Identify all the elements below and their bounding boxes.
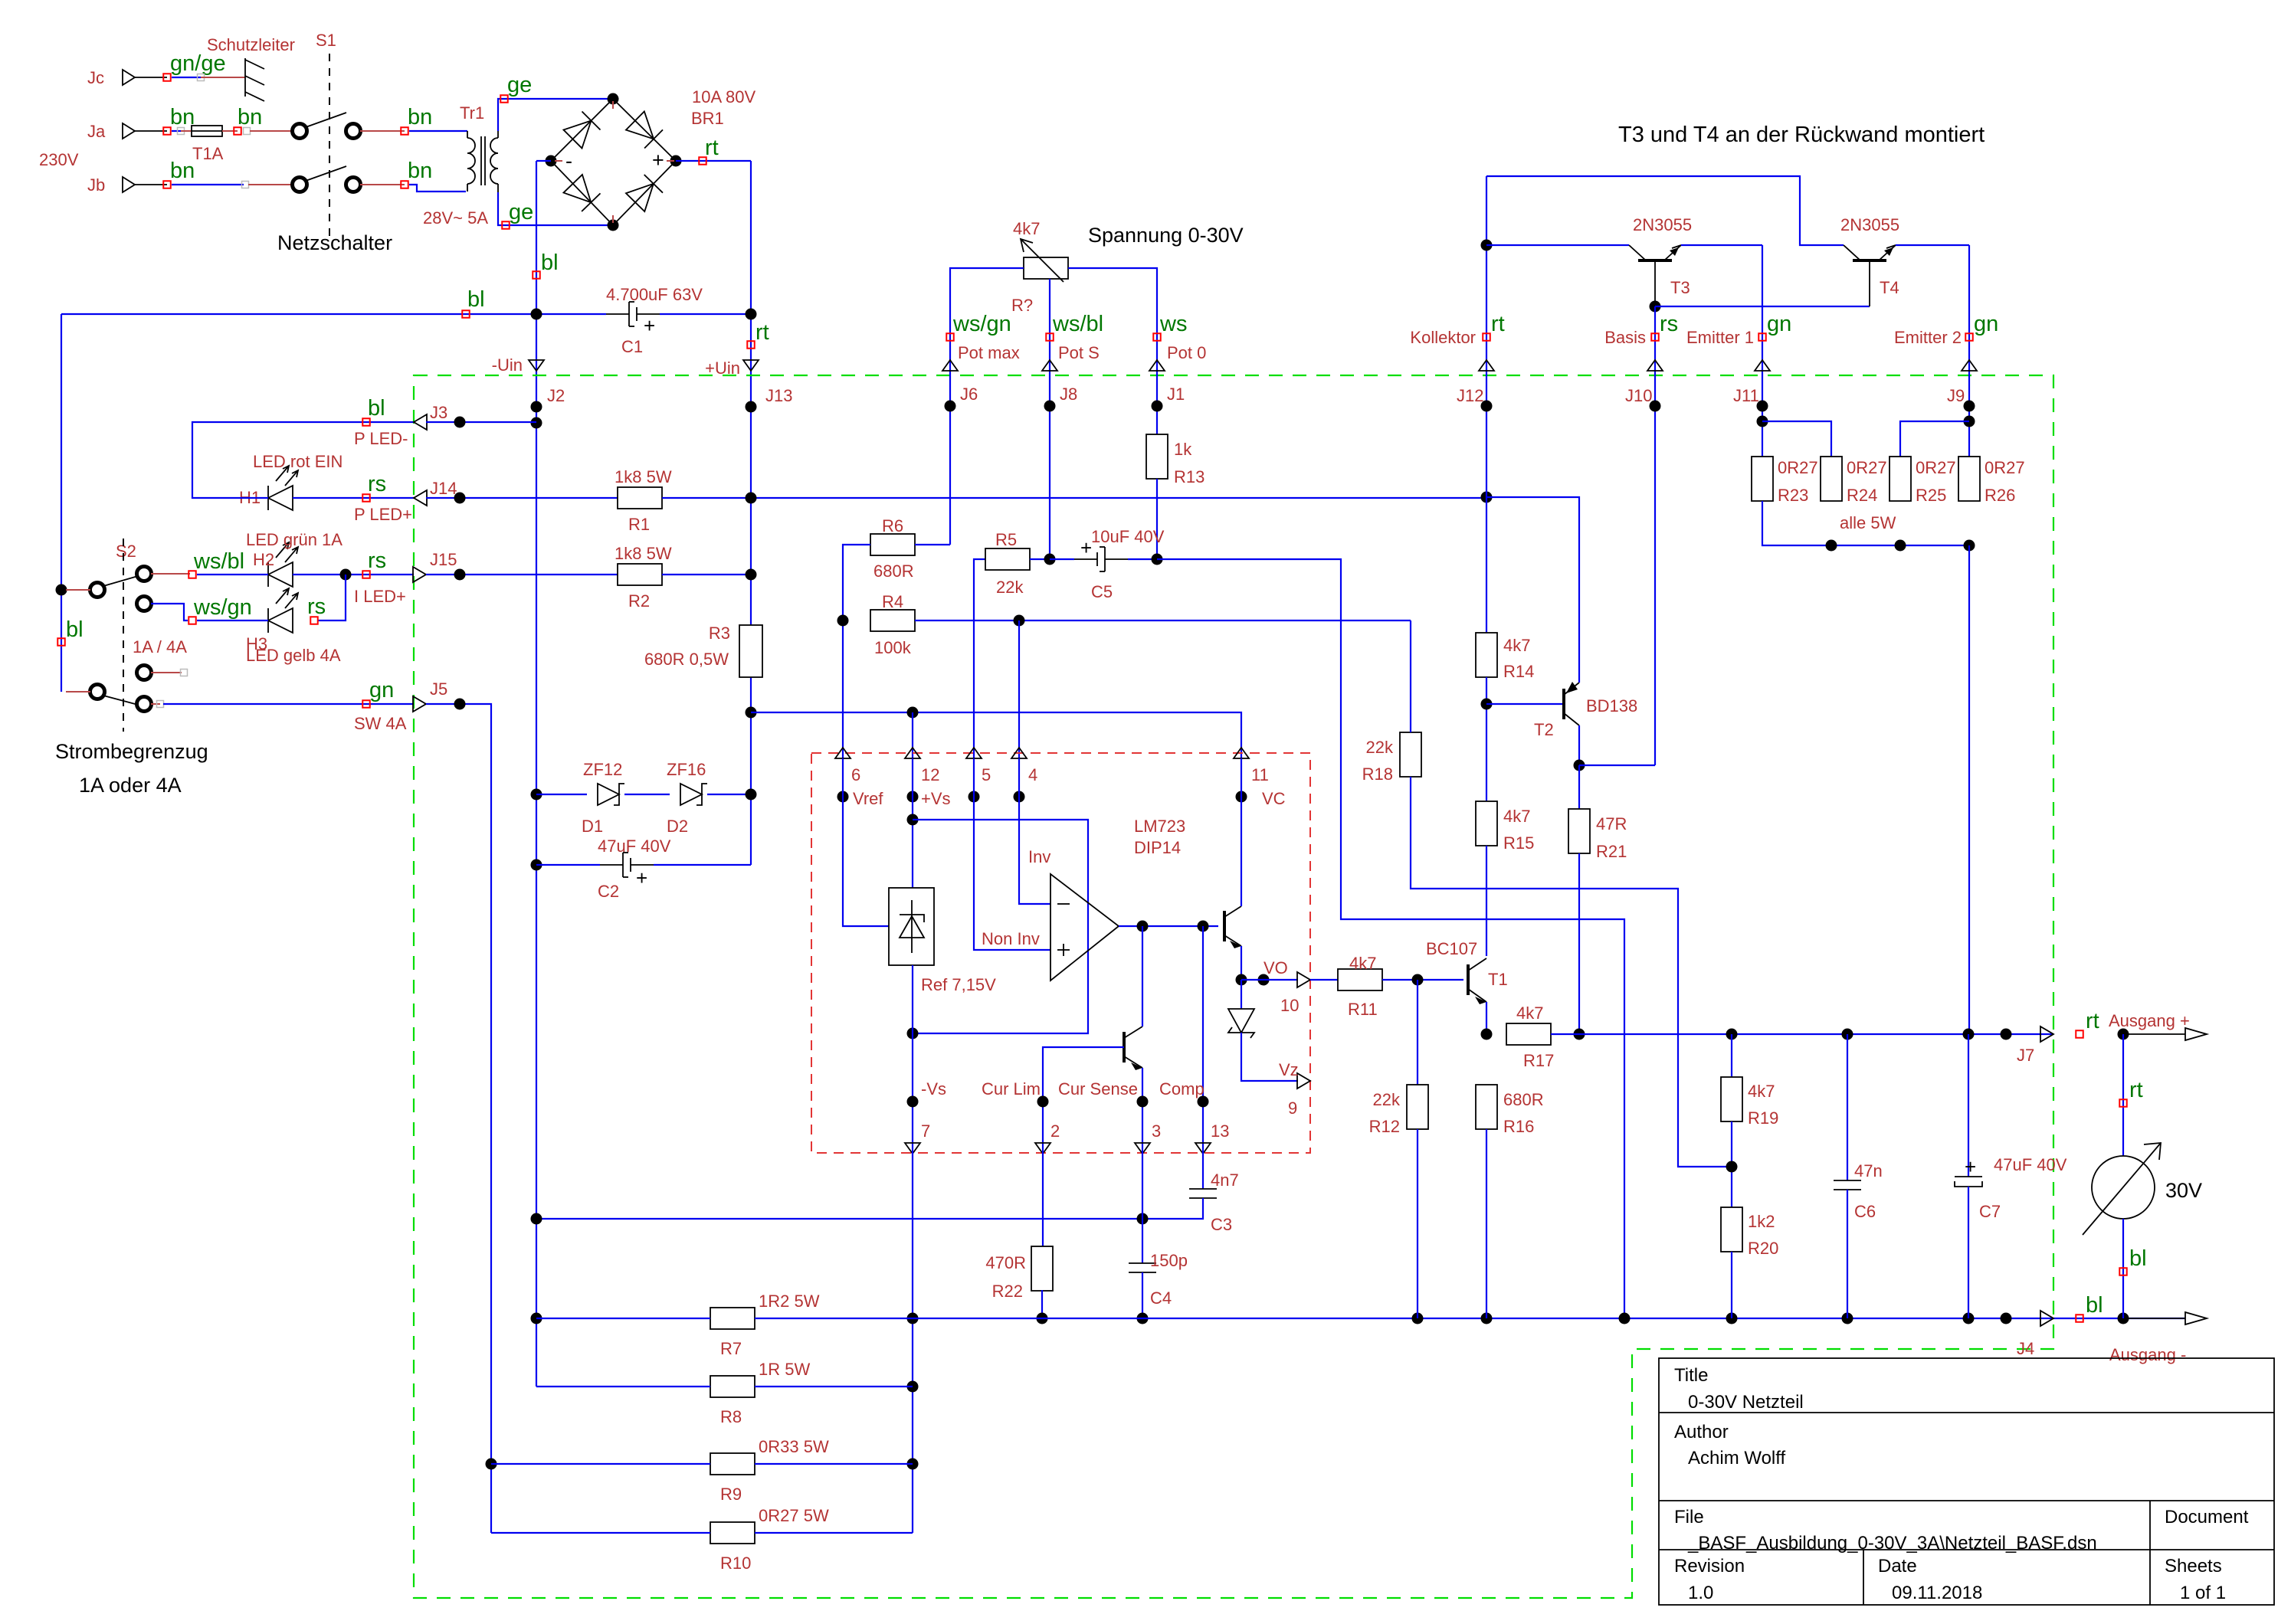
svg-text:4k7: 4k7 [1516,1004,1543,1023]
svg-text:R22: R22 [992,1282,1023,1301]
wire J5 to R9 column [426,704,491,1533]
svg-text:bn: bn [408,105,432,129]
pin dot J5 [454,699,466,710]
svg-text:R8: R8 [720,1407,742,1426]
svg-text:47R: 47R [1596,814,1627,833]
svg-text:alle 5W: alle 5W [1840,513,1896,532]
svg-text:C5: C5 [1091,582,1113,601]
tap square J5 [157,701,164,708]
portal VO 10 [1297,972,1310,987]
svg-text:R24: R24 [1847,486,1877,505]
svg-text:0R27: 0R27 [1916,458,1956,477]
wire +Vs loop [913,820,1088,1033]
svg-text:gn/ge: gn/ge [170,51,226,76]
junction C5 at J1 [1152,554,1163,565]
wire C2 left [536,864,600,866]
svg-text:Non Inv: Non Inv [982,929,1040,948]
wire R10 left [491,1532,710,1534]
svg-text:P LED+: P LED+ [354,505,412,524]
wire C5 right [1128,558,1157,560]
zener D1 ZF12 [598,784,619,805]
resistor R2 [618,564,662,585]
junction pin4 node [1014,615,1025,627]
svg-text:2: 2 [1050,1121,1060,1141]
resistor R23 [1752,457,1773,501]
svg-text:10: 10 [1280,996,1299,1015]
svg-text:T4: T4 [1880,278,1899,297]
switch S1 dashed link [329,54,330,239]
connector Jb [123,177,135,192]
wire pin5 noninv internal [974,758,1050,950]
wire T4 emitter to J9 [1896,244,1969,246]
pin square bl on -Uin [533,271,540,279]
pin dot 7 -Vs [907,1096,919,1108]
junction VO rail C6 [1842,1029,1853,1040]
svg-text:J7: J7 [2017,1046,2034,1065]
svg-text:0R27 5W: 0R27 5W [759,1506,829,1525]
svg-text:LED rot EIN: LED rot EIN [253,452,343,471]
svg-text:T3 und T4 an der Rückwand mont: T3 und T4 an der Rückwand montiert [1618,123,1985,147]
junction I LED+ [340,569,352,581]
potentiometer R? 4k7 [1024,257,1068,279]
wire pin3 to C4 [1142,1148,1143,1263]
resistor R8 [710,1376,755,1397]
portal -Uin [529,360,544,371]
bridge diode bottom-right [626,184,654,211]
wire J11 to R24 [1762,421,1831,457]
portal J4 [2040,1311,2053,1326]
wire Vref column [843,545,870,758]
svg-text:R5: R5 [995,530,1017,549]
svg-text:J3: J3 [430,403,447,422]
wire bl to S2 upper [66,589,90,591]
svg-text:J9: J9 [1947,386,1965,405]
junction C2 left [531,859,542,871]
svg-text:ge: ge [509,200,533,224]
resistor R5 [985,548,1030,570]
svg-text:230V: 230V [39,150,79,169]
switch S1 pole A right contact [346,124,361,139]
wire Jb black [135,184,167,185]
pin square ws/bl J8 [1046,333,1054,341]
switch S2 lower throw 1 [137,666,152,680]
wire R20 to minus rail [1731,1252,1732,1318]
wire collector to T3 [1486,244,1629,246]
svg-text:H2: H2 [253,550,274,569]
wire R18 top to R4 net [1410,620,1411,732]
wire C3 to sense rail [536,1198,1203,1219]
junction C1 left on J2 [531,309,542,320]
junction VO rail C7 [1963,1029,1975,1040]
svg-text:DIP14: DIP14 [1134,838,1181,857]
pin square bl at S2 [57,638,65,646]
junction +Uin at Kollektor [1481,492,1493,503]
svg-text:ws/bl: ws/bl [1052,312,1103,336]
svg-text:+: + [1080,536,1092,559]
svg-text:J12: J12 [1457,386,1483,405]
wire R6 right to J6 [915,544,950,545]
wire pin4 inv internal [1019,758,1050,904]
junction VO rail R19 [1726,1029,1738,1040]
wire R8 right [755,1386,913,1387]
pin square Emitter 1 [1758,333,1766,341]
junction +Vs loop bottom [907,1028,919,1040]
svg-text:J4: J4 [2017,1339,2034,1358]
svg-text:3: 3 [1152,1121,1161,1141]
svg-text:4n7: 4n7 [1211,1171,1239,1190]
junction VO right [1258,974,1270,986]
wire Basis vertical [1654,306,1656,765]
junction Pot S node [1044,554,1056,565]
junction -Vs at R9 [907,1459,919,1470]
svg-text:4k7: 4k7 [1748,1082,1775,1101]
junction C1 right on J13 [746,309,757,320]
junction R11 R12 [1412,974,1424,986]
resistor R25 [1890,457,1911,501]
svg-text:J11: J11 [1733,386,1759,405]
svg-text:9: 9 [1288,1098,1297,1118]
pin square Basis [1651,333,1659,341]
wire Q emitter to VO [1241,946,1242,980]
junction D row at J2 [531,789,542,801]
wire +Uin rail J13 vertical lower [750,677,752,865]
svg-text:Schutzleiter: Schutzleiter [207,35,295,54]
reference diode Ref 7,15V [889,888,934,965]
junction C4 at minus rail [1137,1313,1149,1324]
wire C2 right [654,864,751,866]
svg-text:R2: R2 [628,591,650,611]
svg-text:4.700uF 63V: 4.700uF 63V [606,285,703,304]
switch S1 pole B left contact [293,178,307,192]
svg-text:bl: bl [541,250,559,275]
svg-text:R7: R7 [720,1339,742,1358]
junction minus rail R16 [1481,1313,1493,1324]
wire meter top [2122,1034,2124,1156]
wire C6 top [1847,1034,1848,1180]
bridge pin tick left [555,160,562,162]
pin square bl left [462,310,470,318]
pin dot J13 [746,401,757,413]
resistor R12 [1407,1085,1428,1129]
pin dot J15 [454,569,466,581]
svg-text:Inv: Inv [1028,847,1050,866]
svg-text:R?: R? [1011,296,1033,315]
wire R8 left [536,1386,710,1387]
svg-text:C6: C6 [1854,1202,1876,1221]
junction minus rail R20 [1726,1313,1738,1324]
portal pin 3 [1135,1143,1150,1154]
wire R15 to T1 collector [1486,846,1487,956]
pin dot J8 [1044,401,1056,412]
svg-text:rt: rt [1491,312,1505,336]
svg-text:bl: bl [368,396,385,421]
wire Jc blue [172,77,201,78]
wire R7 left [536,1318,710,1319]
wire to C5 [1050,558,1074,560]
svg-text:R3: R3 [709,624,730,643]
resistor R9 [710,1453,755,1475]
svg-text:1k8 5W: 1k8 5W [615,544,672,563]
zener D2 ZF16 [680,784,702,805]
portal pin 5 [966,748,982,758]
svg-text:Pot S: Pot S [1058,343,1100,362]
svg-text:VO: VO [1263,958,1288,977]
wire CL collector [1142,926,1143,1026]
wire pot wiper to J8 [1049,279,1050,559]
svg-text:22k: 22k [996,578,1024,597]
junction R19 R20 [1726,1161,1738,1173]
junction R14 T2 base [1481,699,1493,710]
svg-text:R10: R10 [720,1554,751,1573]
svg-text:gn: gn [369,678,394,702]
svg-text:Pot max: Pot max [958,343,1020,362]
pin dot J9 [1964,401,1975,412]
wire base bus [1655,306,1870,307]
junction R7 left [531,1313,542,1324]
svg-text:470R: 470R [985,1253,1026,1272]
portal J5 [413,696,426,712]
wire ge top [498,99,611,131]
junction collector T3 [1481,240,1493,251]
svg-text:09.11.2018: 09.11.2018 [1892,1583,1982,1603]
wire VO to zener [1241,980,1242,1009]
transformer Tr1 [467,138,475,184]
svg-text:+: + [636,866,647,889]
svg-text:R23: R23 [1778,486,1808,505]
pin dot J3 [454,417,466,428]
wire bridge minus to -Uin line [536,160,551,162]
resistor R10 [710,1522,755,1544]
wire T2 base [1486,703,1564,705]
wire pin4 drop [1018,620,1020,758]
svg-text:D1: D1 [582,817,603,836]
wire Ja to Tr1 [409,130,467,132]
wire H2 anode right [293,574,414,575]
junction meter plus [2118,1029,2129,1040]
wire D2 to J13 [707,794,751,795]
svg-text:Revision: Revision [1674,1556,1745,1577]
wire R12 to minus rail [1417,1129,1418,1318]
svg-text:ws/gn: ws/gn [193,595,252,620]
wire T2 collector to rs line [1579,765,1655,766]
pin square Kollektor [1483,333,1490,341]
junction J3 at J2 [531,417,542,429]
junction +Vs drop [907,707,919,719]
wire to output plus arrow [2123,1033,2185,1035]
portal pin 4 [1011,748,1027,758]
wire R9 right [755,1463,913,1465]
svg-text:150p: 150p [1150,1251,1188,1270]
svg-text:T2: T2 [1534,720,1554,739]
svg-text:VC: VC [1262,789,1286,808]
svg-text:bn: bn [238,105,262,129]
junction R25 bottom [1895,540,1906,552]
svg-text:0R27: 0R27 [1847,458,1887,477]
wire to output minus arrow [2123,1318,2185,1319]
pin square bl PLED- [362,418,370,426]
svg-text:J6: J6 [960,385,978,404]
wire H1 anode to J14 [293,497,414,499]
svg-text:C4: C4 [1150,1288,1172,1308]
junction -Vs at minus rail [907,1313,919,1324]
resistor R16 [1476,1085,1497,1129]
transistor Q current-limit internal [1123,1032,1126,1062]
wire emitter resistor bottom bus [1762,501,1969,545]
svg-text:Date: Date [1878,1556,1917,1577]
pin dot 4 [1014,791,1025,803]
resistor R7 [710,1308,755,1329]
svg-text:Spannung 0-30V: Spannung 0-30V [1088,224,1244,247]
svg-text:J1: J1 [1167,385,1185,404]
svg-text:Sheets: Sheets [2165,1556,2222,1577]
tap square Jc [198,74,205,81]
svg-text:I LED+: I LED+ [354,587,406,606]
junction meter minus [2118,1313,2129,1324]
pin dot 13 [1198,1096,1209,1108]
svg-text:R9: R9 [720,1485,742,1504]
svg-text:J13: J13 [765,386,792,405]
svg-text:rs: rs [368,548,386,573]
pin dot J14 [454,493,466,504]
wire pot right to J1 [1068,268,1157,434]
wire Jb to switch [248,184,293,185]
svg-text:13: 13 [1211,1121,1229,1141]
connector Jc [123,70,135,85]
svg-text:Emitter 2: Emitter 2 [1894,328,1962,347]
svg-text:1R 5W: 1R 5W [759,1360,810,1379]
wire switch B to bn [360,184,405,185]
wire J14 to R1 [426,497,618,499]
junction base T3 T4 [1650,301,1661,313]
junction R21 at VO rail [1574,1029,1585,1040]
wire Emitter1 vertical [1762,245,1763,457]
svg-text:J2: J2 [547,386,565,405]
svg-text:Cur Lim: Cur Lim [982,1079,1041,1098]
resistor R13 [1146,434,1168,479]
capacitor C7 47uF [1955,1176,1982,1177]
resistor R1 [618,487,662,509]
resistor R18 [1400,732,1421,777]
portal pin 13 [1195,1143,1211,1154]
svg-text:bl: bl [467,287,485,312]
wire H1 cathode to J3 [192,422,414,498]
resistor R11 [1338,969,1382,990]
wire R13 to C5 row [1156,479,1158,559]
junction J9 branch [1964,416,1975,427]
capacitor C5 [1104,547,1106,571]
connector Ausgang minus arrow [2185,1312,2207,1324]
svg-text:R11: R11 [1348,1000,1378,1019]
svg-text:BR1: BR1 [691,109,724,128]
portal J8 [1042,360,1057,371]
pin square ws/bl [188,571,196,578]
wire C7 bottom [1968,1187,1969,1318]
pin square bl meter [2119,1268,2127,1275]
svg-text:4k7: 4k7 [1503,636,1530,655]
svg-text:bl: bl [2129,1246,2147,1271]
resistor R24 [1821,457,1842,501]
fuse T1A [192,126,222,136]
svg-text:rt: rt [2086,1009,2099,1033]
resistor R26 [1958,457,1980,501]
capacitor C1 [628,302,630,326]
pin square rt J7 [2076,1030,2083,1038]
capacitor C6 47n [1834,1180,1861,1181]
svg-text:gn: gn [1767,312,1791,336]
wire S2 upper throw1 to ws/bl [151,573,190,575]
junction J11 branch [1757,416,1768,427]
svg-text:Achim Wolff: Achim Wolff [1688,1448,1785,1468]
svg-text:T1: T1 [1488,970,1508,989]
wire J5 blue [163,703,414,705]
svg-text:Title: Title [1674,1365,1708,1386]
wire C1 right [660,313,751,315]
wire R9 left [491,1463,710,1465]
pin square Ja bn 3 [401,127,408,135]
wire J9 to R25 [1900,421,1969,457]
svg-text:LED gelb 4A: LED gelb 4A [246,646,341,665]
wire J1 net to comp drop [1157,559,1624,1318]
earth Schutzleiter symbol [244,58,246,97]
bridge pin tick right [667,160,674,162]
junction Vref R4 [837,615,849,627]
connector Ausgang plus arrow [2185,1028,2207,1040]
pin dot J1 [1152,401,1163,412]
wire T1 emitter [1486,1002,1487,1034]
pin square ws/gn J6 [946,333,954,341]
pin square Emitter 2 [1965,333,1973,341]
wire CL base pin2 [1043,1047,1124,1148]
svg-text:rs: rs [368,472,386,496]
capacitor C2 [622,853,624,877]
svg-text:+Vs: +Vs [921,789,951,808]
wire pin13 to C3 [1202,1148,1204,1189]
wire bl horizontal C1 row [61,313,606,315]
wire R2 to J13 [662,574,751,575]
resistor R6 [870,534,915,555]
pin dot J6 [945,401,956,412]
wire I LED+ riser [317,575,346,620]
svg-text:47n: 47n [1854,1161,1883,1180]
svg-text:J15: J15 [430,550,457,569]
svg-text:Author: Author [1674,1422,1729,1442]
svg-text:J14: J14 [430,479,457,498]
wire Kollektor vertical [1486,176,1487,634]
svg-text:R1: R1 [628,515,650,534]
svg-text:bl: bl [66,617,84,642]
wire pin7 below box [912,1148,913,1533]
pin dot J11 [1757,401,1768,412]
svg-text:J8: J8 [1060,385,1077,404]
pin square Jb bn 2 [401,181,408,188]
svg-text:10A 80V: 10A 80V [692,87,756,106]
svg-text:4: 4 [1028,765,1037,784]
svg-text:rt: rt [755,320,769,345]
junction bridge top [608,93,619,105]
wire Emitter2 vertical [1968,245,1970,457]
svg-text:ws/gn: ws/gn [952,312,1011,336]
resistor R4 [870,610,915,631]
junction R3 bottom [746,707,757,719]
svg-text:R17: R17 [1523,1051,1554,1070]
svg-text:0R27: 0R27 [1985,458,2025,477]
junction -Vs at R8 [907,1381,919,1393]
resistor R3 [739,625,762,677]
resistor R14 [1476,633,1497,677]
pin square rs J15 [362,571,370,578]
svg-text:2N3055: 2N3055 [1633,215,1692,234]
svg-text:11: 11 [1251,765,1269,784]
